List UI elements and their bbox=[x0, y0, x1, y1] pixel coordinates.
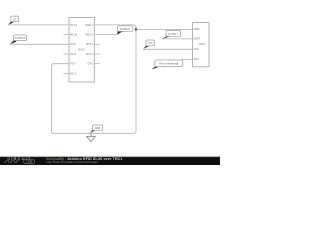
node flag 1.5V bbox=[143, 40, 154, 49]
svg-text:ANT: ANT bbox=[194, 57, 200, 61]
svg-text:BZ 10: BZ 10 bbox=[70, 33, 77, 37]
svg-text:D1 8: D1 8 bbox=[70, 52, 76, 56]
wire From Antenna to TRC1 ANT bbox=[181, 58, 193, 60]
svg-text:ID-20: ID-20 bbox=[78, 48, 85, 52]
wire junction to TRC1 GND bbox=[136, 28, 193, 30]
svg-text:D-PIN 7: D-PIN 7 bbox=[168, 32, 178, 36]
svg-text:5V 11: 5V 11 bbox=[70, 23, 77, 27]
wire D-PIN 9 to pin 9 bbox=[10, 43, 69, 45]
svg-text:VCC: VCC bbox=[194, 47, 200, 51]
wire FS 7 loop to ground bbox=[52, 27, 136, 133]
wire 1.5V to TRC1 VCC bbox=[143, 48, 192, 50]
CircuitLab logo bbox=[4, 156, 35, 164]
pin stub ANT 4 bbox=[94, 53, 100, 55]
svg-text:1.5V: 1.5V bbox=[147, 41, 153, 45]
svg-text:LAB: LAB bbox=[26, 160, 33, 164]
svg-text:http://www.circuitlab.com/circ: http://www.circuitlab.com/circuit/hegar9 bbox=[46, 160, 98, 164]
node flag 5V bbox=[8, 16, 19, 25]
node flag From Antenna bbox=[151, 60, 183, 70]
svg-text:RES 2: RES 2 bbox=[86, 33, 94, 37]
svg-text:GND: GND bbox=[194, 27, 200, 31]
pin stub D1 8 bbox=[64, 53, 70, 55]
op-amp U1 ID-20 body bbox=[69, 17, 94, 82]
node flag D-PIN 8 bbox=[117, 26, 133, 35]
node flag GND bbox=[90, 125, 103, 133]
node flag D-PIN 9 bbox=[10, 35, 27, 44]
node flag D-PIN 7 bbox=[162, 31, 180, 39]
svg-text:NC 6: NC 6 bbox=[70, 71, 76, 75]
svg-text:5V: 5V bbox=[13, 17, 17, 21]
pin stub NC 6 bbox=[64, 72, 70, 74]
pin stub ANT 3 bbox=[94, 43, 100, 45]
svg-text:ANT 4: ANT 4 bbox=[86, 52, 94, 56]
svg-text:D-PIN 9: D-PIN 9 bbox=[15, 36, 25, 40]
svg-text:D-PIN 8: D-PIN 8 bbox=[120, 27, 130, 31]
svg-text:DATA: DATA bbox=[194, 37, 201, 41]
junction dot bbox=[135, 28, 137, 30]
svg-text:FS 7: FS 7 bbox=[70, 62, 76, 66]
wire D-PIN 7 to TRC1 DATA bbox=[162, 38, 192, 40]
ground symbol bbox=[87, 133, 96, 141]
wire 5V to pin 11 bbox=[8, 24, 69, 26]
svg-text:ANT 3: ANT 3 bbox=[86, 42, 94, 46]
transistor U2 TRC1 body bbox=[193, 23, 209, 67]
svg-text:From Antenna: From Antenna bbox=[159, 62, 178, 66]
svg-text:GND 1: GND 1 bbox=[85, 23, 93, 27]
pin stub CP 5 bbox=[94, 63, 100, 65]
svg-text:GND: GND bbox=[95, 126, 101, 130]
svg-text:D0 9: D0 9 bbox=[70, 42, 76, 46]
wire GND pin 1 down right side bbox=[94, 25, 136, 27]
svg-text:CP 5: CP 5 bbox=[87, 62, 93, 66]
wire RES pin 2 to D-PIN 8 flag bbox=[94, 34, 117, 36]
pin stub BZ 10 bbox=[64, 34, 70, 36]
svg-text:TRC1: TRC1 bbox=[199, 42, 206, 46]
